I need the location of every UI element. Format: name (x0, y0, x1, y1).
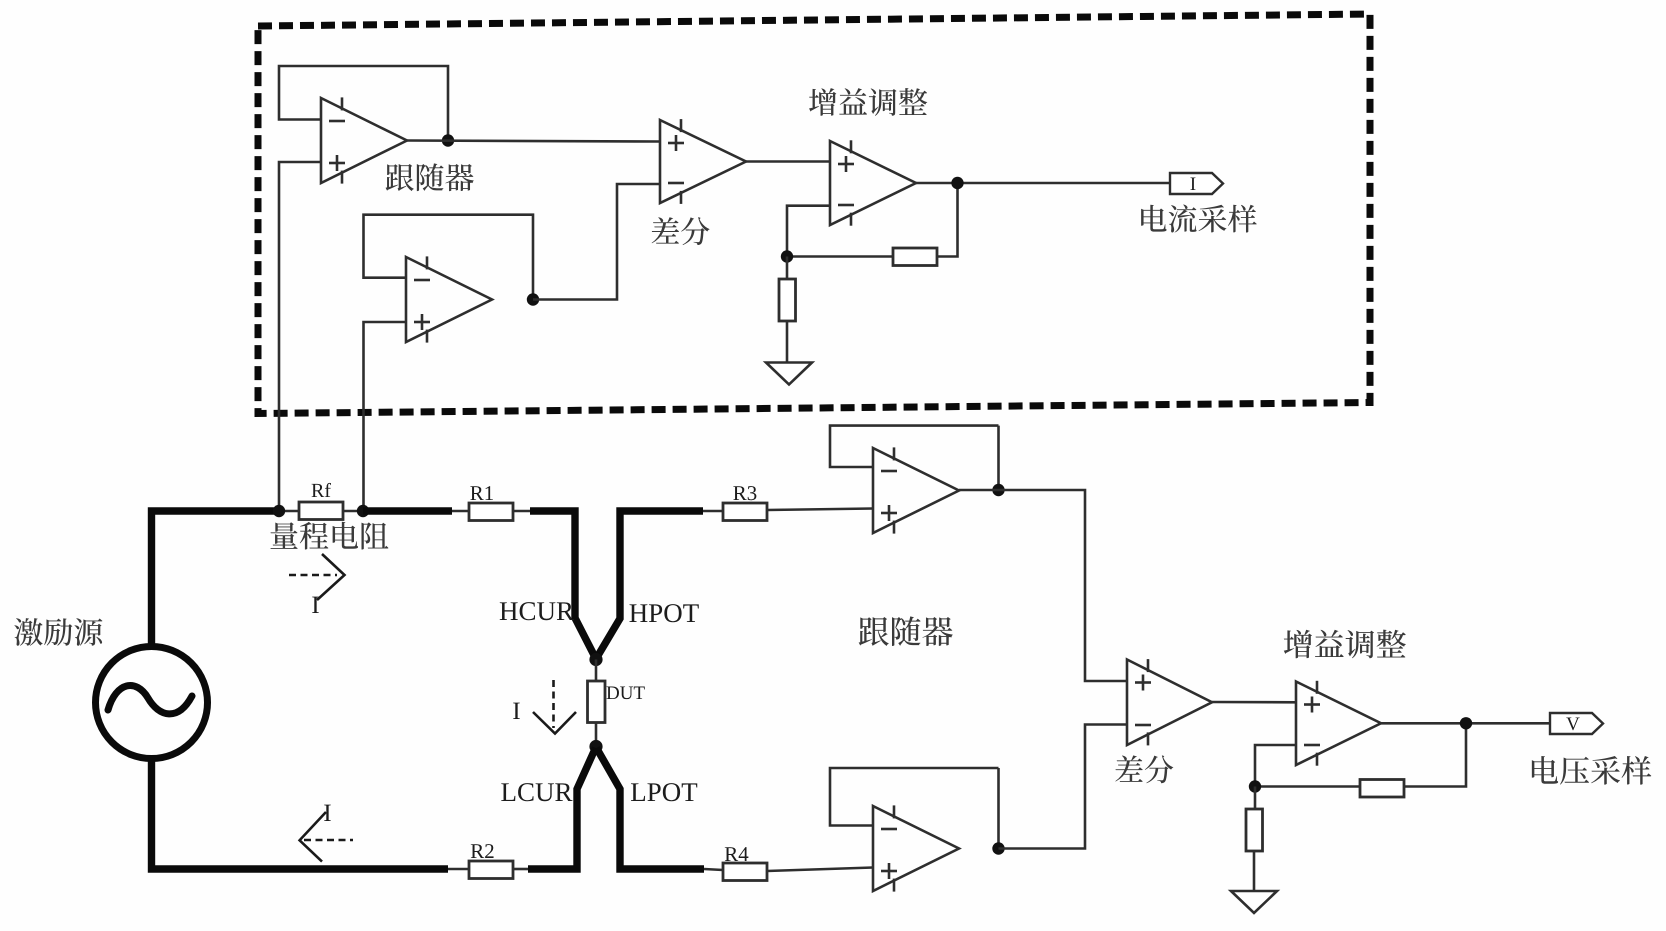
op-amp U1 follower (321, 97, 407, 183)
wire HPOT to R3 (thick) (597, 511, 704, 658)
node Rf right node (357, 505, 369, 517)
wire U1 + input from Rf-left node (279, 162, 321, 511)
wire U8 feedback right (1403, 723, 1466, 786)
wire R4 to U6 + (767, 868, 873, 872)
op-amp U3 difference (660, 119, 746, 204)
label I (1190, 178, 1195, 190)
wire U2 out to U3 - (533, 184, 660, 300)
wire LPOT to R4 (thick) (597, 748, 705, 869)
node U6 output (992, 842, 1004, 854)
wire U8 - feedback left (1255, 745, 1296, 787)
op-amp U6 follower (873, 805, 959, 891)
label 增益调整 (1284, 630, 1406, 659)
wire R4 left lead (704, 869, 723, 870)
node DUT top node (589, 653, 602, 666)
label I (324, 805, 331, 821)
label 量程电阻 (270, 522, 388, 550)
op-amp U2 follower (406, 256, 492, 342)
wire U6 feedback (830, 768, 999, 826)
node DUT bottom node (589, 740, 602, 753)
resistor R1 (469, 503, 513, 521)
wire V node to ground R (1254, 787, 1257, 810)
wire R1 to HCUR (thick) (530, 511, 596, 658)
node U8 feedback node (1249, 780, 1261, 792)
wire source top to Rf node (thick) (152, 511, 278, 648)
node U2 output (527, 293, 539, 305)
label 差分 (652, 217, 710, 245)
resistor gain ground R (I stage) (779, 279, 796, 321)
node U4 output node (951, 177, 963, 189)
label I (312, 597, 319, 613)
dashed box (current sampling section) (258, 14, 1370, 414)
wire U5 feedback (830, 426, 999, 467)
wire DUT top lead (595, 660, 598, 682)
wire R2 left lead (448, 868, 469, 871)
wire U4 - feedback left (787, 206, 830, 257)
node Rf left node (273, 505, 285, 517)
label LCUR (501, 783, 572, 801)
resistor R2 (469, 861, 513, 879)
output connector V output (1550, 713, 1603, 734)
label R3 (733, 486, 756, 500)
wire U8 output (1381, 722, 1550, 725)
wire R2 to LCUR (thick) (528, 748, 596, 869)
wire gain node to ground R (786, 257, 789, 280)
wire Rf right lead (343, 510, 365, 513)
ground top ground (766, 363, 812, 385)
wire U5 feedback right (997, 426, 1000, 490)
label 激励源 (14, 618, 102, 646)
label LPOT (631, 783, 697, 801)
node U1 output (442, 134, 454, 146)
ground bottom ground (1231, 891, 1277, 913)
wire R3 left lead (703, 510, 723, 513)
label 跟随器 (859, 616, 953, 646)
wire U5 out to U7 + (959, 490, 1127, 681)
resistor gain ground R (V stage) (1246, 809, 1263, 851)
node U5 output (992, 484, 1004, 496)
wire R to ground (786, 321, 789, 363)
current arrow I (rightward, near Rf) (289, 574, 337, 577)
wire R3 to U5 + (767, 509, 873, 511)
resistor Rf (299, 502, 343, 520)
AC source (excitation) (96, 647, 208, 759)
resistor feedback R (V stage) (1360, 780, 1404, 798)
current arrow I (downward, at DUT) (552, 680, 555, 728)
node U4 feedback node (781, 250, 793, 262)
wire Rf left lead (277, 510, 299, 513)
wire U4 output (916, 182, 1170, 185)
label 电压采样 (1532, 756, 1651, 785)
wire U1 out to U3 + (407, 141, 660, 142)
wire R to bottom ground (1253, 851, 1256, 891)
op-amp U7 difference (1127, 659, 1212, 745)
op-amp U4 gain (830, 140, 916, 225)
resistor R3 (723, 503, 767, 521)
label DUT (607, 687, 645, 700)
label 电流采样 (1141, 205, 1257, 233)
label R4 (725, 847, 749, 861)
wire R1 left lead (452, 510, 469, 513)
node U8 output node (1460, 717, 1472, 729)
wire source bottom to R2 (thick) (152, 757, 449, 869)
label R2 (471, 844, 494, 858)
label V (1566, 718, 1579, 731)
wire R1 right lead (513, 510, 531, 513)
wire U2 + input from Rf-right node (364, 322, 407, 511)
wire U6 out to U7 - (999, 725, 1128, 849)
wire U2 feedback (364, 215, 534, 300)
wire U1 feedback (279, 66, 448, 141)
op-amp U5 follower (873, 447, 959, 533)
wire DUT bottom lead (595, 723, 598, 747)
output connector I output (1170, 173, 1223, 194)
label 差分 (1115, 755, 1173, 783)
wire U8 feedback bottom (1255, 785, 1360, 788)
label R1 (470, 486, 493, 500)
label 跟随器 (386, 163, 474, 191)
wire Rf to R1 (thick) (363, 507, 452, 514)
label HCUR (500, 602, 574, 620)
label Rf (312, 483, 331, 497)
resistor R4 (723, 863, 767, 881)
label 增益调整 (809, 88, 927, 116)
current arrow I (leftward, bottom) (304, 839, 353, 842)
op-amp U8 gain (1296, 681, 1381, 766)
wire U4 feedback bottom (787, 255, 893, 258)
label I (513, 703, 520, 719)
resistor DUT (588, 681, 606, 723)
wire U6 feedback right (997, 768, 1000, 849)
resistor feedback R (I stage) (893, 248, 937, 266)
wire U3 out to U4 + (746, 160, 830, 163)
label HPOT (629, 604, 698, 622)
wire U4 feedback right (937, 183, 958, 257)
wire U7 out to U8 + (1212, 701, 1296, 704)
wire R2 right lead (513, 868, 529, 871)
